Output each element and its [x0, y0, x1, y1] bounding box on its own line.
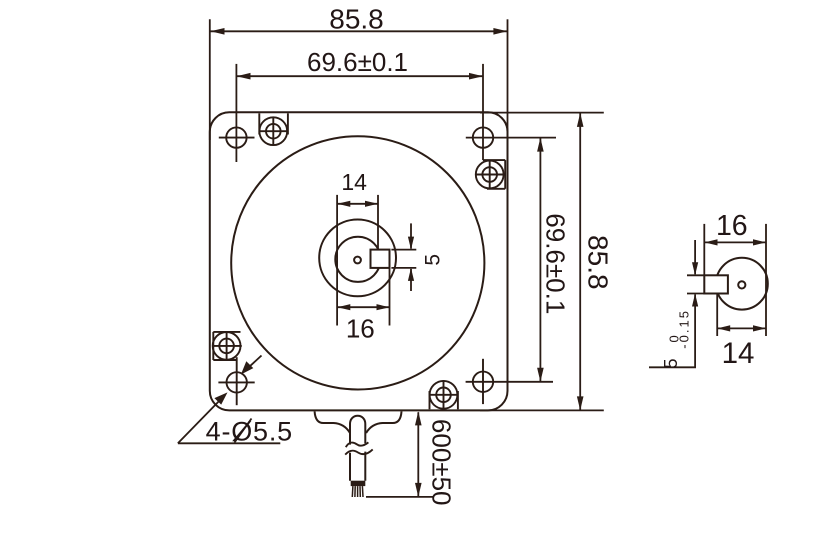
side view center dot: [738, 281, 745, 288]
svg-text:85.8: 85.8: [583, 235, 614, 290]
arrow 16 left: [337, 304, 350, 310]
arrow 16 side left: [705, 239, 718, 245]
arrow 5 main bottom (pointing up): [408, 268, 414, 281]
arrow 85.8 top left: [211, 28, 225, 35]
dimension 5 side: label underline: [649, 366, 696, 368]
arrow 69.6 top left: [237, 73, 251, 80]
arrowhead second leader: [241, 361, 253, 374]
svg-text:4-Ø5.5: 4-Ø5.5: [206, 417, 293, 447]
dimension 16 main: dimension line: [337, 306, 389, 308]
label 4-Ø5.5 leader line and underline: [178, 397, 224, 444]
svg-text:16: 16: [346, 313, 375, 343]
dimension 14 side: extension line left: [716, 295, 718, 337]
screw hole B1 (top-left, with square): [259, 113, 289, 145]
arrow 14 side left: [717, 325, 730, 331]
cable tube lower section: [350, 452, 365, 481]
shaft center dot: [354, 257, 361, 264]
cable break squiggle lower: [345, 449, 373, 454]
screw hole B4 (bottom-right, with square): [429, 380, 458, 409]
dimension 69.6 top: extension lines through holes: [235, 64, 237, 162]
cable strain-relief right wing: [366, 411, 401, 433]
dimension 600±50: bottom extension line: [366, 496, 433, 498]
arrow 600±50 top: [415, 411, 422, 425]
dimension 14 main: extension lines: [336, 195, 338, 326]
arrow 5 side bottom (pointing up): [692, 294, 698, 307]
dimension 14 side: dimension line: [717, 327, 766, 329]
dimension 16 side: dimension line: [705, 241, 767, 243]
side view (shaft end view): [704, 258, 768, 310]
screw hole B2 (top-right, with square): [476, 160, 505, 189]
svg-text:-0.15: -0.15: [677, 309, 692, 349]
svg-text:69.6±0.1: 69.6±0.1: [541, 213, 571, 314]
dimension 69.6 top: dimension line: [237, 75, 484, 77]
arrow 600±50 bottom: [415, 483, 422, 497]
dimension 5 side: extension lines: [687, 274, 704, 276]
dimension 69.6 right: extension lines (hole crosshairs extended): [466, 137, 556, 139]
dimension 16 main: extension line right (key edge extended): [389, 268, 391, 326]
arrow 69.6 right bottom: [537, 368, 544, 382]
arrow 85.8 right bottom: [577, 396, 584, 410]
svg-text:69.6±0.1: 69.6±0.1: [307, 47, 408, 77]
mounting hole A2 (top-right): [473, 127, 493, 147]
dimension 69.6 right: dimension line: [539, 138, 541, 382]
shaft key rectangle: [371, 250, 390, 268]
text 5 0/-0.15 side (rotated): [661, 309, 692, 368]
arrow 85.8 right top: [577, 113, 584, 127]
dimension 85.8 right: extension lines: [480, 112, 604, 114]
arrow 16 side right: [753, 239, 766, 245]
arrow 14 right: [365, 201, 378, 207]
svg-text:600±50: 600±50: [427, 419, 457, 506]
second leader arrow line to hole A3: [245, 356, 262, 371]
shaft circle: [335, 237, 380, 282]
dimension 85.8 top: dimension line: [211, 30, 508, 32]
arrow 14 side right: [753, 325, 766, 331]
dimension 5 side: arrow tails: [694, 240, 696, 274]
screw hole B3 (bottom-left, with square): [213, 331, 242, 360]
cable tube with rounded cap: [350, 416, 365, 445]
arrowhead leader 4-Ø5.5: [214, 392, 227, 404]
arrow 69.6 right top: [537, 138, 544, 152]
svg-text:5: 5: [421, 254, 444, 266]
arrow 5 side top (pointing down): [692, 262, 698, 275]
mounting hole A3 (bottom-left): [218, 357, 254, 405]
svg-text:14: 14: [722, 337, 755, 370]
dimension 14 main: dimension line: [337, 203, 378, 205]
dimension 85.8 right: dimension line: [579, 113, 581, 410]
cable wire strands: [352, 486, 363, 497]
cable sheath end band: [351, 481, 366, 486]
arrow 85.8 top right: [493, 28, 507, 35]
arrow 14 left: [337, 201, 350, 207]
dimension 16 side: extension lines: [703, 224, 705, 275]
cable break squiggle upper: [346, 442, 369, 447]
arrow 69.6 top right: [469, 73, 483, 80]
arrowheads: [211, 28, 584, 497]
pilot circle: [231, 136, 484, 389]
hub outer circle: [319, 220, 396, 297]
side view shaft circle: [716, 258, 768, 310]
side view key rectangle: [704, 275, 728, 293]
svg-text:14: 14: [341, 169, 367, 195]
dimension 5 main: extension lines: [391, 249, 416, 251]
dimension 5 main: arrow tails: [410, 223, 412, 248]
mounting hole A4 (bottom-right): [473, 359, 493, 404]
arrow 16 right: [377, 304, 390, 310]
cable strain-relief left wing: [315, 411, 350, 433]
dimension graphics: [178, 19, 604, 497]
dimension 85.8 top: extension lines: [209, 19, 211, 140]
plate outline: [210, 112, 508, 410]
dimension texts: [206, 4, 614, 506]
svg-text:85.8: 85.8: [329, 4, 384, 35]
arrow 5 main top (pointing down): [408, 237, 414, 250]
dimension 600±50: dimension line: [417, 412, 419, 496]
svg-text:5: 5: [661, 358, 681, 368]
mounting hole A1 (top-left): [219, 127, 255, 147]
slash extension of diameter symbol in 4-Ø5.5: [235, 419, 252, 443]
svg-text:16: 16: [716, 210, 748, 242]
